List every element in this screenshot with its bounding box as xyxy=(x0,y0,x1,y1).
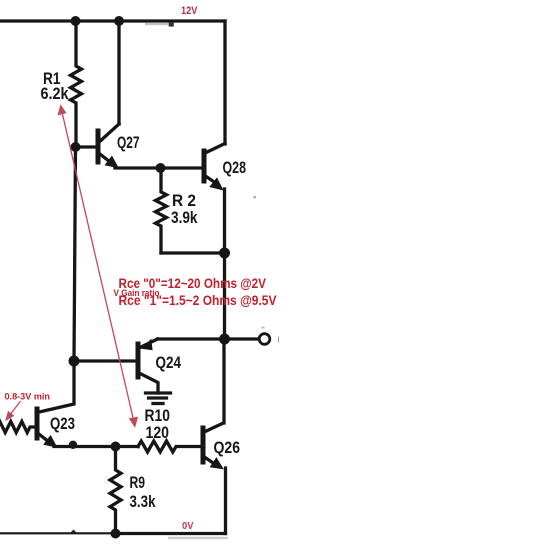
svg-text:3.3k: 3.3k xyxy=(130,492,156,511)
wire 12V top rail xyxy=(0,19,225,22)
artifact bump on bottom rail xyxy=(70,530,77,534)
wire Q27 collector vertical xyxy=(117,21,120,124)
wire output node to terminal xyxy=(225,337,259,340)
wire Q23 collector vertical xyxy=(37,361,74,413)
wire Q28 collector vertical xyxy=(223,21,226,144)
artifact smudge under bottom rail xyxy=(168,537,228,539)
junction R9 bottom rail xyxy=(111,529,121,539)
resistor left input xyxy=(0,422,35,433)
junction top rail Q27 collector xyxy=(114,16,124,26)
transistor Q24 xyxy=(138,339,158,393)
transistor Q23 xyxy=(37,409,58,448)
ground under Q24 xyxy=(146,393,171,404)
annotation input level arrow xyxy=(6,401,20,420)
junction R2 top xyxy=(156,163,166,173)
junction R9 top xyxy=(111,442,121,452)
resistor R2 xyxy=(156,168,167,253)
artifact speck near R2 loop xyxy=(254,196,256,198)
wire Q26 collector vertical xyxy=(222,339,225,423)
resistor R10 xyxy=(138,441,202,452)
svg-text:12V: 12V xyxy=(181,5,198,17)
output terminal circle xyxy=(259,334,270,345)
transistor Q28 xyxy=(204,144,225,191)
svg-text:Q23: Q23 xyxy=(50,414,75,433)
wire Q27 base xyxy=(76,145,97,148)
junction R1 bottom Q27 base xyxy=(71,142,81,152)
artifact speck above terminal xyxy=(262,327,265,329)
wire Q24 emitter to output node xyxy=(158,337,225,340)
junction output node xyxy=(219,334,230,345)
transistor Q26 xyxy=(203,423,224,469)
svg-text:120: 120 xyxy=(146,423,170,442)
svg-text:0V: 0V xyxy=(182,520,194,532)
junction Q23 emitter small xyxy=(69,441,77,449)
artifact smudge under top rail xyxy=(145,23,173,26)
resistor R9 xyxy=(110,447,121,534)
resistor R1 xyxy=(71,21,82,147)
wire mid vertical to output node xyxy=(223,253,226,339)
wire 0V bottom rail xyxy=(0,532,116,534)
wire R2 bottom to emitter node xyxy=(161,251,225,254)
artifact dash right of terminal xyxy=(278,337,280,343)
junction Q24 base node xyxy=(69,356,80,367)
svg-text:Rce "1"=1.5~2 Ohms @9.5V: Rce "1"=1.5~2 Ohms @9.5V xyxy=(119,292,278,308)
svg-text:Q26: Q26 xyxy=(214,438,241,457)
transistor Q27 xyxy=(98,124,119,168)
svg-text:Q24: Q24 xyxy=(156,353,182,372)
wire Q26 emitter down to 0V rail xyxy=(224,468,227,534)
wire long left vertical from R1 to Q24 base node xyxy=(74,147,76,361)
svg-text:R9: R9 xyxy=(130,473,146,492)
wire Q24 base xyxy=(74,359,136,362)
junction Q28 emitter R2 xyxy=(219,248,230,259)
annotation gain ratio double arrow xyxy=(59,106,138,427)
wire Q28 emitter down xyxy=(223,189,226,253)
wire Q23 emitter to R10 xyxy=(54,445,138,448)
svg-text:Q27: Q27 xyxy=(117,133,140,152)
svg-text:0.8-3V min: 0.8-3V min xyxy=(5,392,51,403)
wire Q27 emitter to Q28 base xyxy=(115,166,204,169)
junction top rail R1 xyxy=(71,16,81,26)
svg-text:Q28: Q28 xyxy=(223,158,247,177)
svg-text:6.2k: 6.2k xyxy=(41,84,69,103)
svg-text:3.9k: 3.9k xyxy=(171,208,198,227)
